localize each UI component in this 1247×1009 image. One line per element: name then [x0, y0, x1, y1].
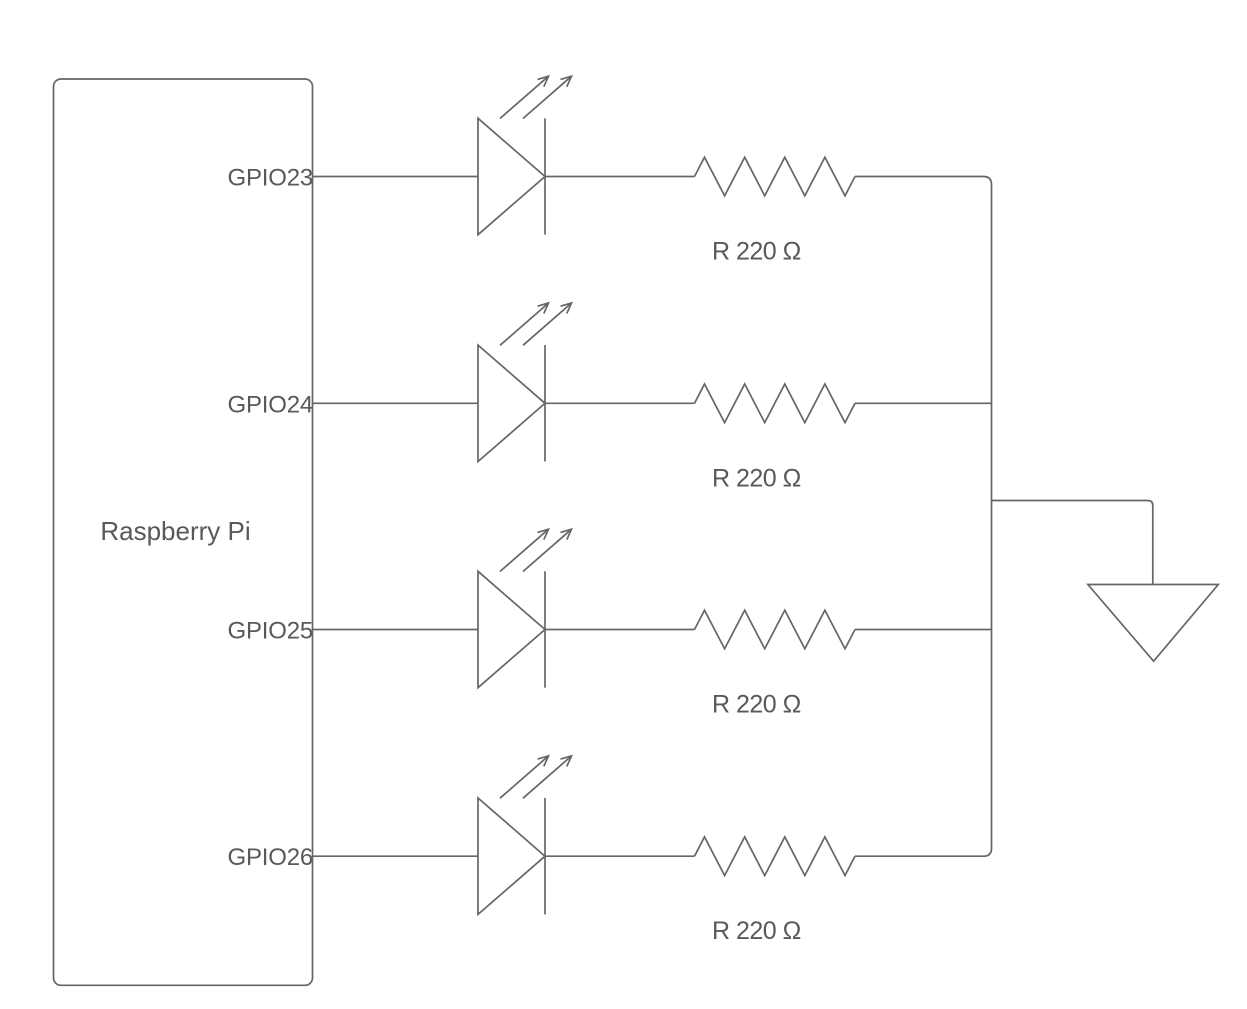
svg-text:GPIO26: GPIO26 [227, 844, 313, 871]
svg-text:GPIO23: GPIO23 [227, 165, 313, 192]
svg-text:Raspberry Pi: Raspberry Pi [100, 516, 250, 546]
svg-text:R 220 Ω: R 220 Ω [712, 691, 801, 719]
svg-text:R 220 Ω: R 220 Ω [712, 917, 801, 945]
svg-text:GPIO25: GPIO25 [227, 618, 313, 645]
svg-text:R 220 Ω: R 220 Ω [712, 238, 801, 266]
svg-text:GPIO24: GPIO24 [227, 391, 313, 418]
svg-text:R 220 Ω: R 220 Ω [712, 464, 801, 492]
